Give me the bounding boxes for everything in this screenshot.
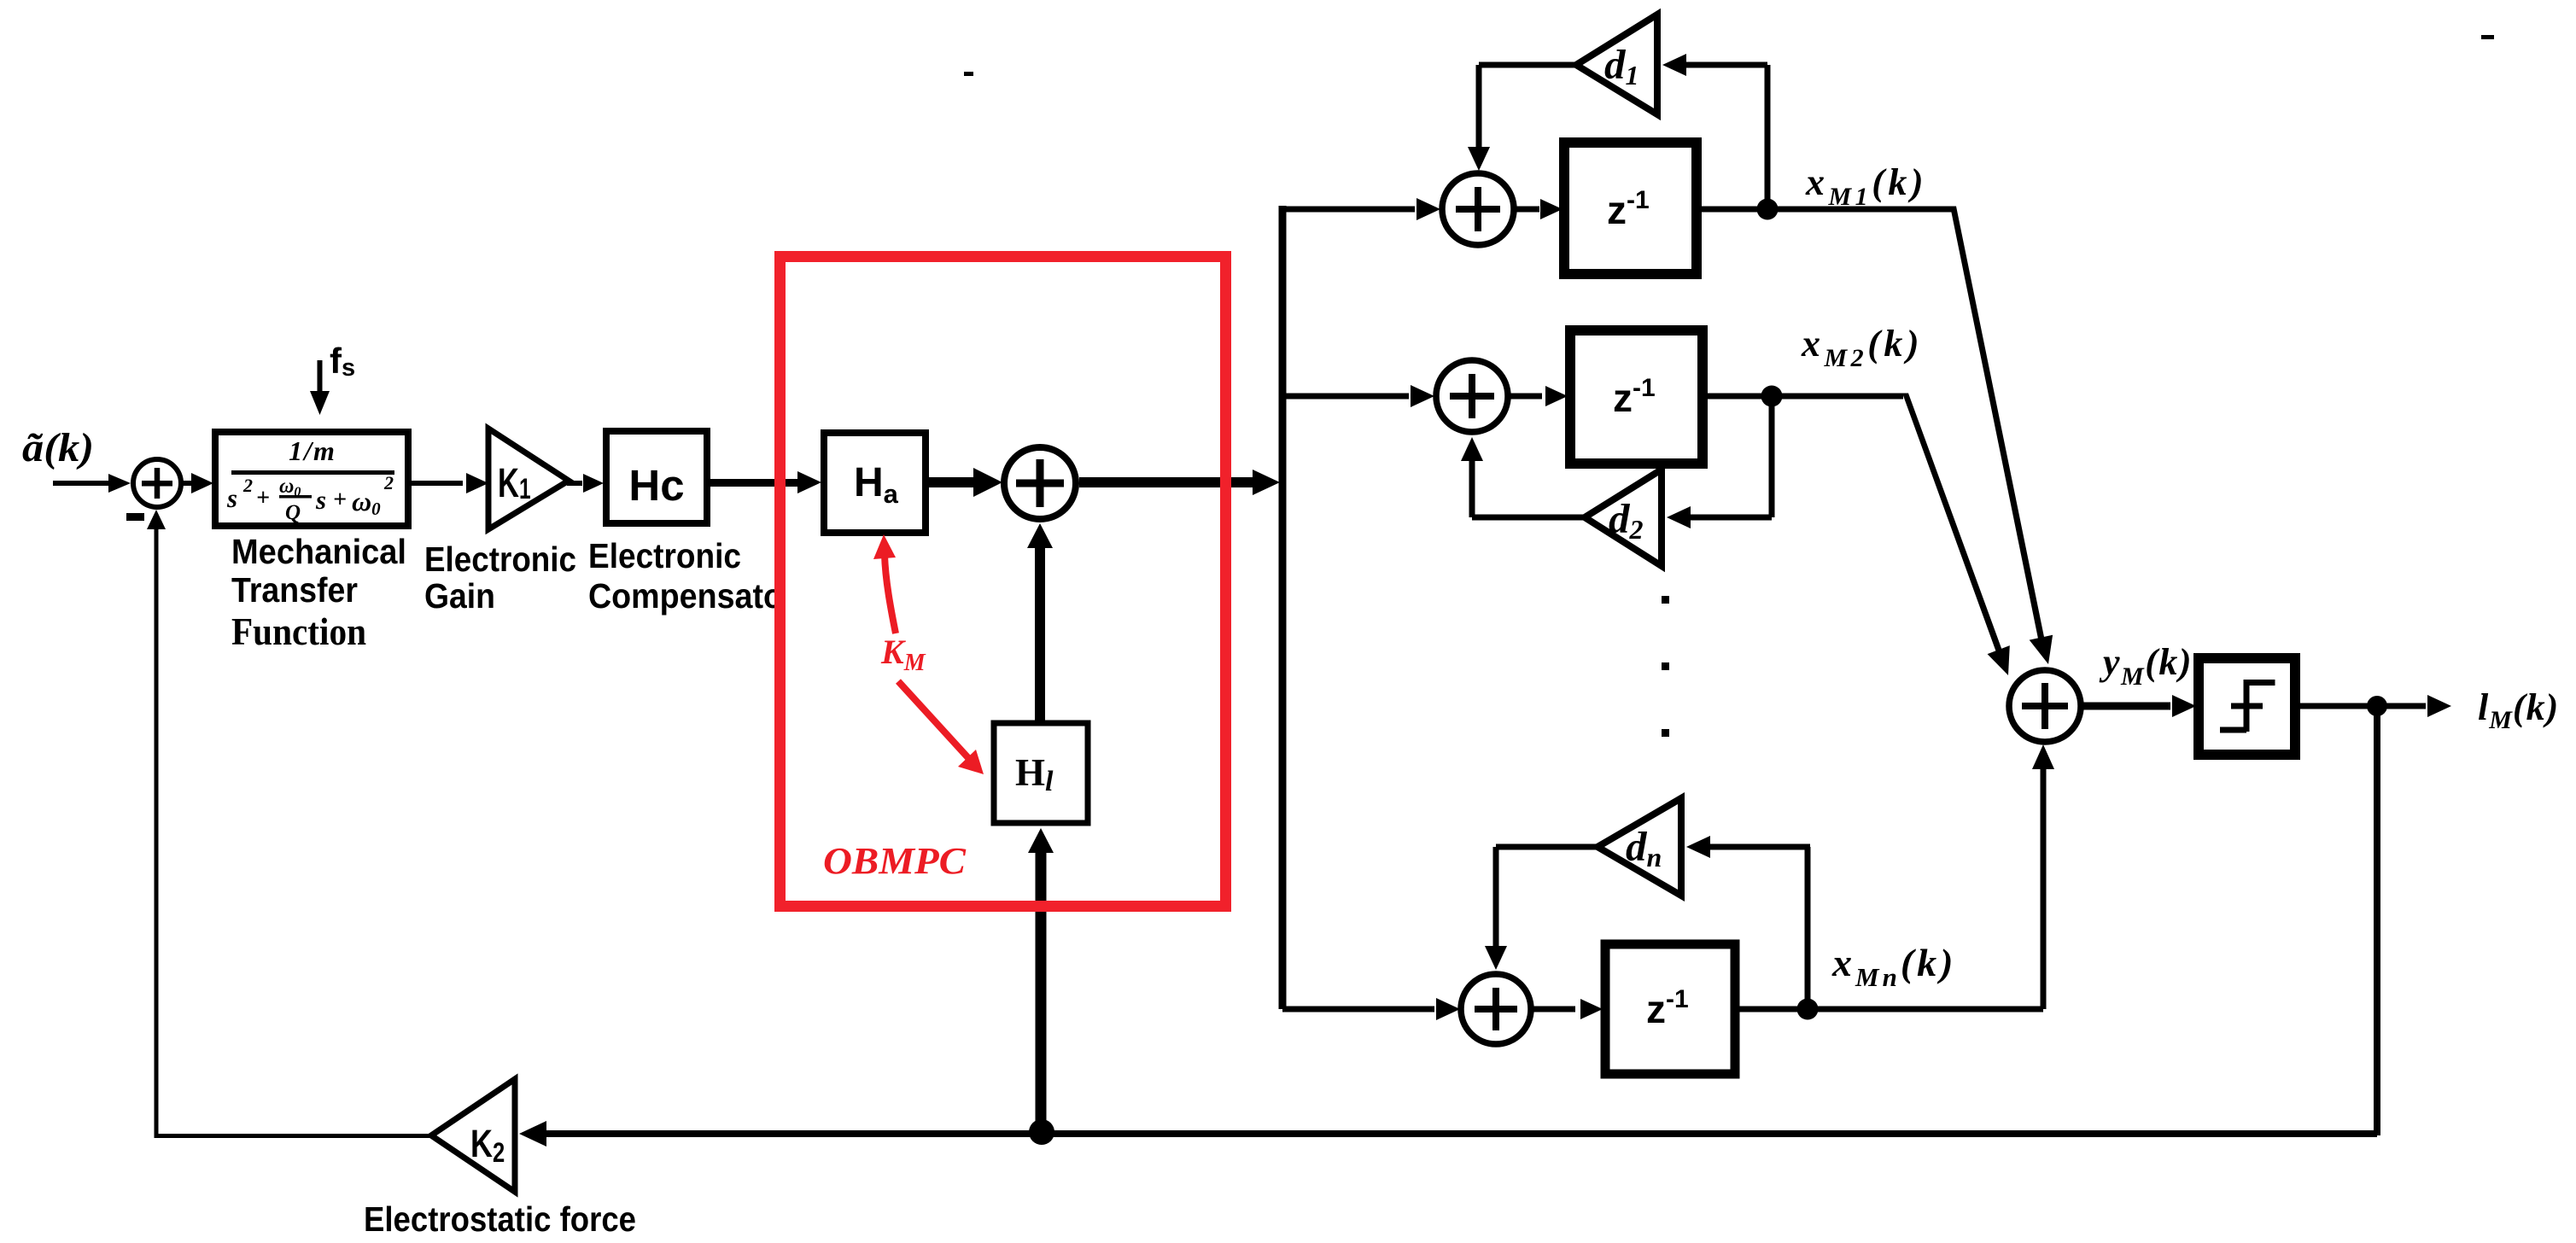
red box OBMPC boundary [780,257,1226,907]
block delay Z1 (z^-1) [1564,143,1697,274]
svg-text:Function: Function [231,610,366,653]
gain d2 triangle [1585,470,1662,566]
summing junction S0 [133,459,181,507]
block Hc electronic compensator [606,431,707,523]
label electronic gain [424,540,576,616]
wire feedback row n up to dn [1686,836,1811,1009]
gain d1 triangle [1576,15,1657,114]
wire Z2 output to corner (row 2) [1708,394,1903,400]
svg-text:s: s [226,483,237,513]
svg-text:Electrostatic force: Electrostatic force [364,1199,636,1239]
node junction dot row 2 output [1761,386,1783,407]
wire S0 to mechanical block [183,473,213,493]
minus sign at S0 feedback input [126,513,144,521]
label electronic compensator [588,536,783,616]
svg-text:2: 2 [242,475,253,496]
summing junction S21 row 2 [1436,360,1508,432]
label lM(k) [2478,686,2559,734]
wire SF to quantizer (thick) [2083,695,2196,717]
node fs sampling input arrow [310,341,355,415]
svg-text:Mechanical: Mechanical [231,532,406,571]
wire bus branch to summer S11 (row 1) [1282,198,1440,220]
node junction dot quantizer output [2367,696,2387,716]
svg-text:2: 2 [383,472,394,493]
svg-text:+: + [256,485,270,511]
wire dn output to Sn1 top [1485,844,1598,971]
gain dn triangle [1598,798,1681,896]
svg-text:Transfer: Transfer [231,570,358,610]
svg-text:Q: Q [285,501,301,524]
gain K2 electrostatic force triangle [431,1079,515,1192]
svg-text:1/m: 1/m [289,435,336,466]
wire bus bottom corner to summer Sn1 (row n) [1282,998,1460,1020]
wire feedback node to Hl (thick vertical) [1028,828,1054,1132]
block quantizer comparator [2199,658,2295,755]
wire diagonal xM2 to summer SF [1902,394,2010,676]
summing junction Sn1 row n [1461,974,1531,1044]
label yM(k) [2099,641,2193,691]
label mechanical transfer function [231,532,406,653]
label xMn(k) [1831,941,1956,992]
block delay Zn (z^-1) [1605,944,1735,1074]
wire feedback row 1 up to d1 [1662,54,1771,209]
gain K1 electronic gain triangle [488,429,569,529]
node junction dot on feedback line [1029,1119,1054,1145]
wire quantizer output to node [2299,695,2451,717]
node input a~(k) label [22,425,94,470]
wire S2 to resonator bus (thick) [1079,470,1280,495]
summing junction S2 [1004,447,1076,519]
block mechanical transfer function [215,432,408,526]
block Ha [824,433,926,533]
stray mark dash top middle [964,72,973,76]
wire S11 to delay Z1 [1516,199,1563,219]
label xM1(k) [1805,161,1927,211]
wire K1 to Hc [567,474,604,493]
node junction dot row 1 output [1757,199,1779,220]
node junction dot row n output [1797,999,1819,1020]
svg-text:Electronic: Electronic [424,540,576,579]
svg-text:Compensato: Compensato [588,576,783,616]
red arrow KM to Hl [898,681,984,774]
wire Zn output to corner (row n) [1739,1007,2043,1012]
label KM (red) [880,633,926,676]
svg-text:Electronic: Electronic [588,536,741,575]
label OBMPC (red) [823,840,967,882]
svg-text:s: s [315,485,326,515]
wire Hl to S2 (thick vertical) [1027,523,1053,722]
wire diagonal xM1 to summer SF [1948,207,2053,665]
label electrostatic force [364,1199,636,1239]
svg-text:Gain: Gain [424,576,495,616]
svg-text:+: + [333,487,347,513]
block Hl [994,723,1088,823]
wire S21 to delay Z2 [1510,386,1568,406]
wire bus branch to summer S21 (row 2) [1282,385,1434,407]
block delay Z2 (z^-1) [1570,330,1703,464]
svg-text:OBMPC: OBMPC [823,840,967,882]
summing junction SF output adder [2009,670,2081,742]
stray mark dash top right [2481,35,2494,39]
wire Ha to summer S2 (thick) [929,468,1002,497]
wire Hc to Ha (thick) [710,471,821,493]
summing junction S11 row 1 [1442,173,1514,245]
wire output feedback down and left to K2 [519,706,2380,1147]
wire xMn vertical up to summer SF bottom [2032,744,2054,1009]
wire resonator input bus vertical [1279,206,1287,1009]
wire d2 output to S21 bottom [1461,437,1585,521]
wire Z1 output to corner (row 1) [1702,207,1951,213]
wire K2 output to S0 (thin feedback) [147,510,436,1138]
wire input to summer S0 [53,474,131,493]
svg-text:Hc: Hc [628,461,684,510]
wire d1 output to S11 top [1468,62,1576,172]
node ellipsis dots between rows [1662,596,1669,737]
wire mechanical block to K1 [412,473,488,493]
label xM2(k) [1801,323,1923,372]
wire feedback row 2 down to d2 [1667,396,1775,528]
wire Sn1 to delay Zn [1533,999,1603,1019]
red arrow KM to Ha [873,534,896,633]
svg-text:ã(k): ã(k) [22,425,94,470]
